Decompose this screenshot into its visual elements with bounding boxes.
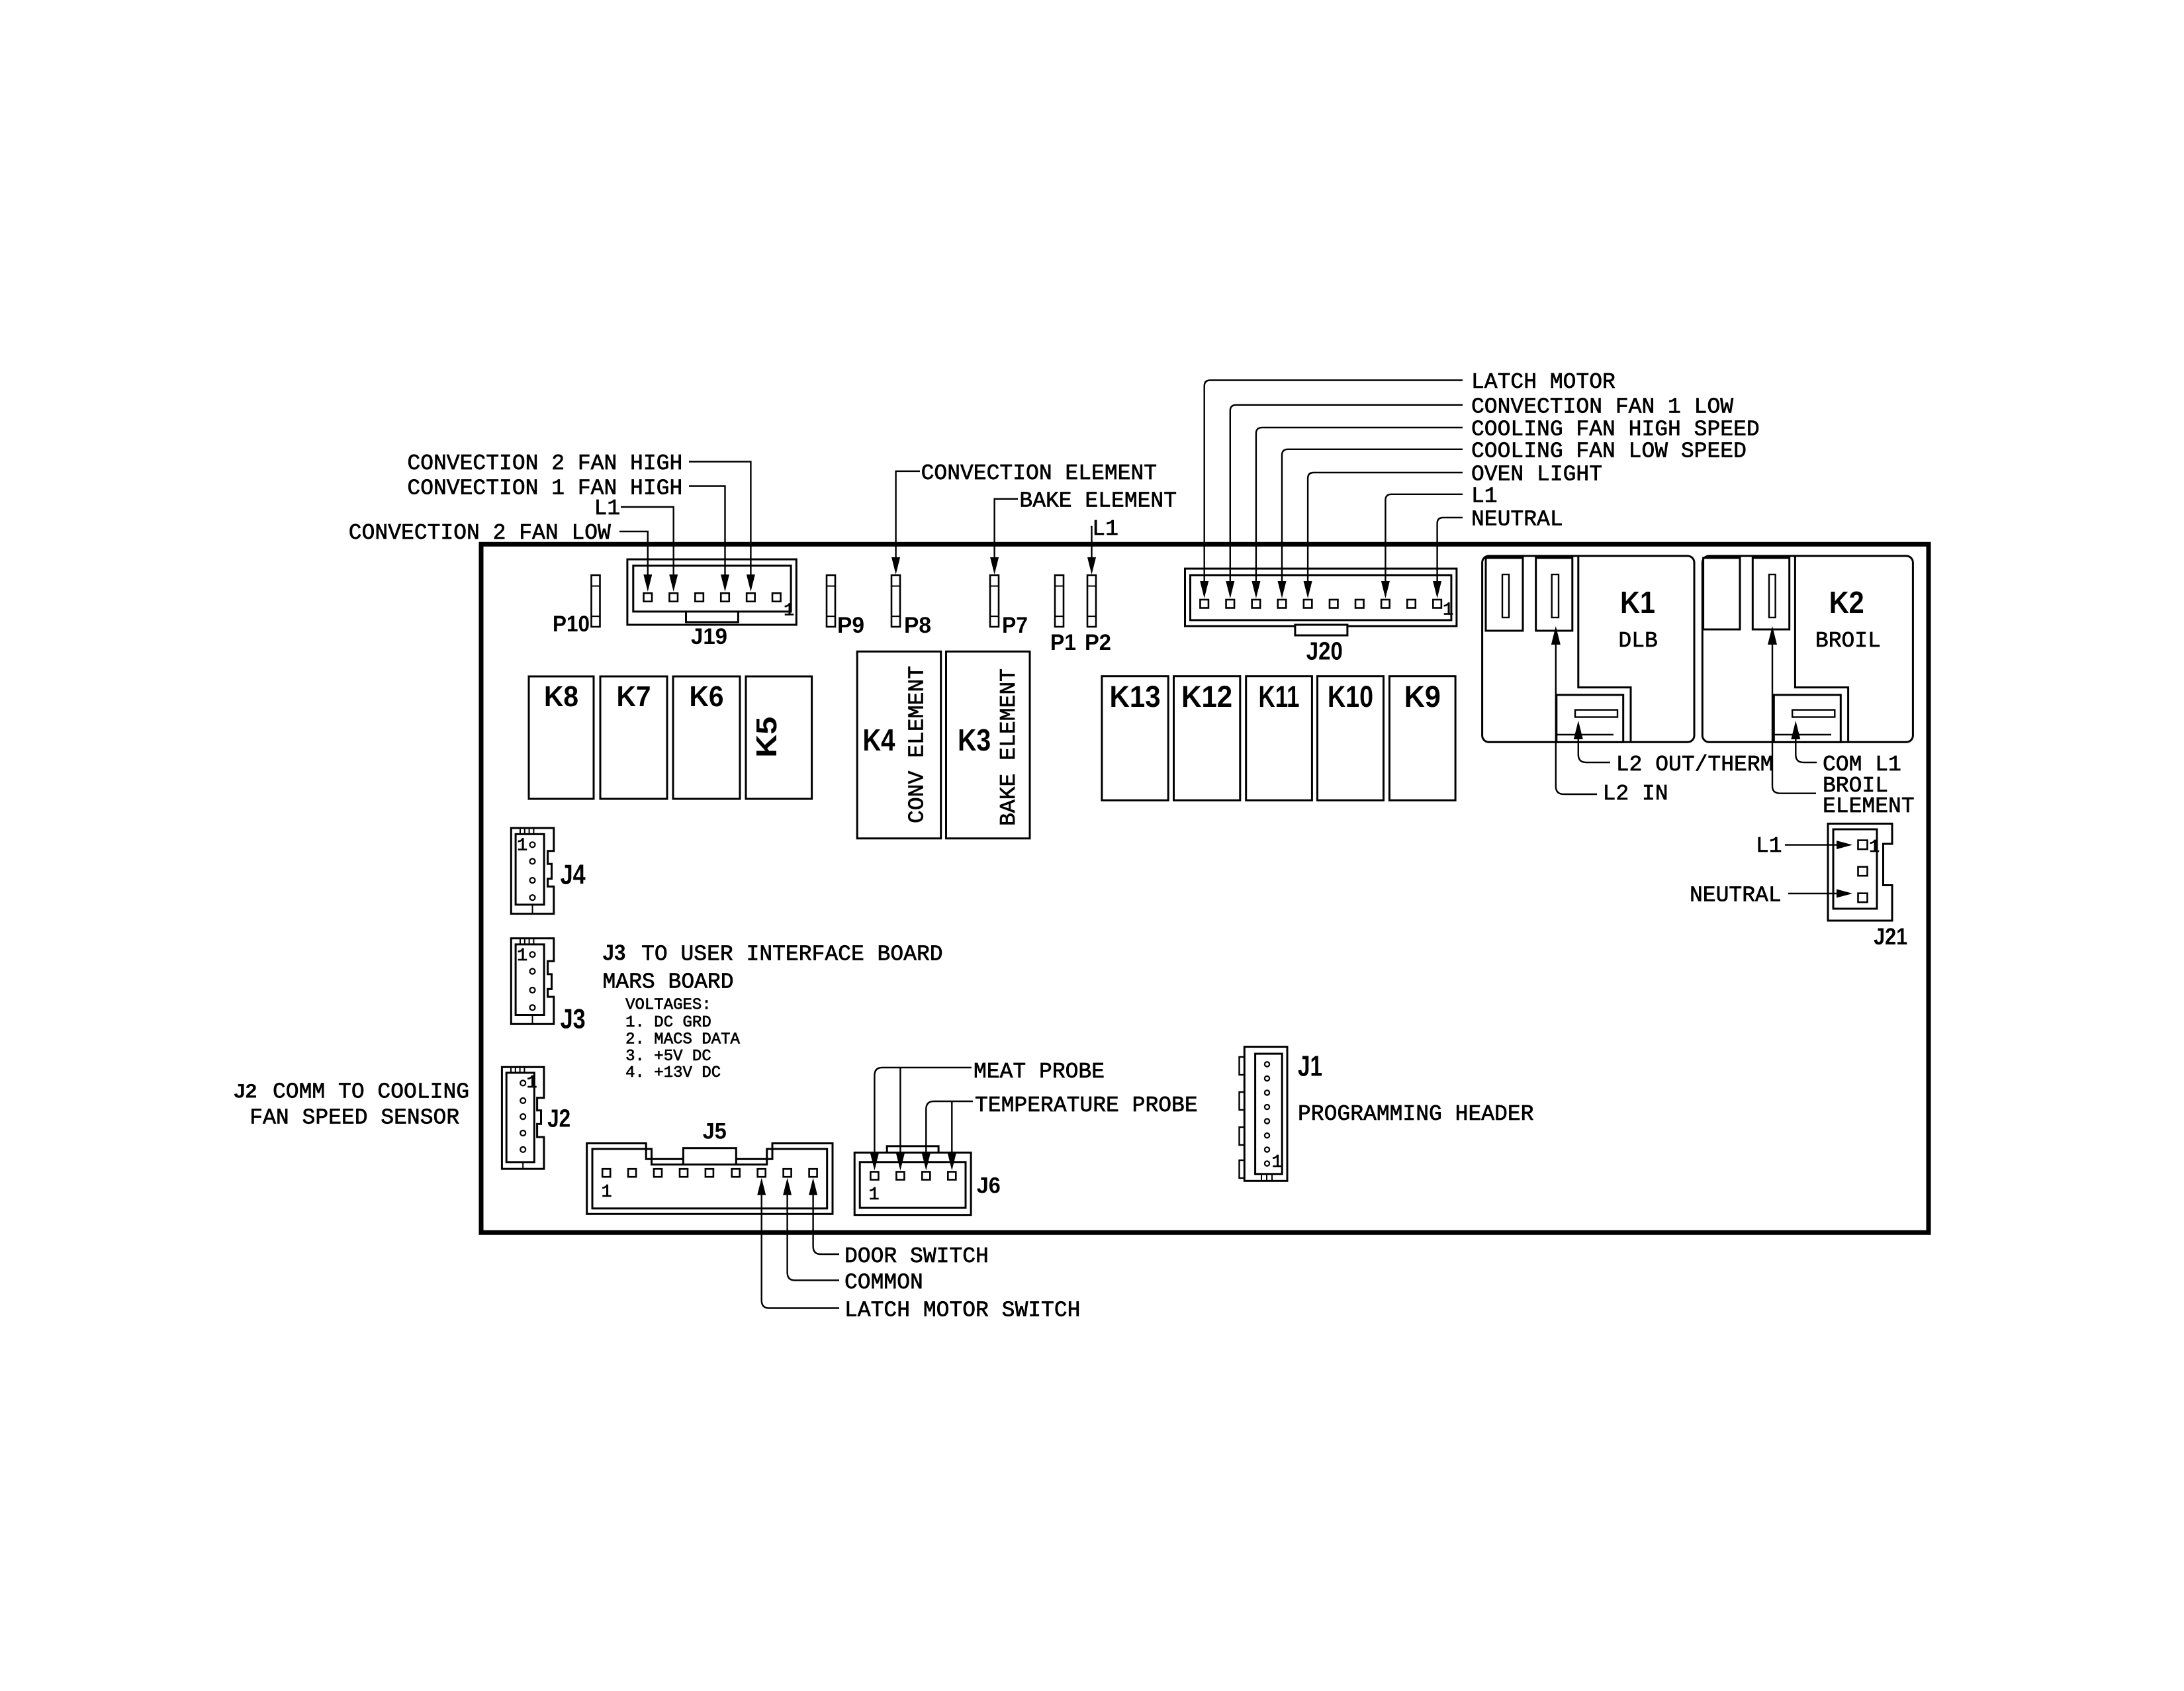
svg-text:J20: J20: [1306, 637, 1343, 665]
relay K11: [1246, 676, 1312, 800]
svg-text:BAKE ELEMENT: BAKE ELEMENT: [997, 668, 1021, 826]
label P10: [553, 612, 590, 637]
wire DOOR SWITCH from J5 pin 9: [813, 1195, 839, 1254]
K2 tab 2: [1752, 558, 1789, 629]
label CONVECTION FAN 1 LOW: [1471, 394, 1733, 419]
label J3: [561, 1003, 586, 1034]
relay K7: [600, 676, 667, 799]
wire L1 to J21 pin 1: [1785, 841, 1852, 849]
svg-text:J21: J21: [1874, 924, 1907, 950]
svg-text:K6: K6: [690, 680, 724, 713]
relay K6: [673, 676, 740, 799]
label CONVECTION 2 FAN LOW: [349, 521, 611, 545]
svg-text:DLB: DLB: [1618, 629, 1657, 653]
label K2: [1829, 585, 1864, 619]
wire COOLING FAN HIGH SPEED to J20 pin: [1256, 428, 1463, 581]
svg-text:NEUTRAL: NEUTRAL: [1471, 508, 1563, 532]
svg-text:CONVECTION 2 FAN HIGH: CONVECTION 2 FAN HIGH: [407, 451, 682, 476]
arrows into J19 pins: [643, 574, 755, 592]
connector J4: [511, 828, 554, 914]
svg-text:TEMPERATURE PROBE: TEMPERATURE PROBE: [975, 1093, 1198, 1118]
label J3 TO USER INTERFACE BOARD: [603, 940, 943, 967]
svg-text:K1: K1: [1620, 585, 1655, 619]
K1 contact box: [1557, 695, 1623, 742]
label PROGRAMMING HEADER: [1298, 1102, 1533, 1126]
label P7: [1002, 613, 1028, 638]
relay K10: [1318, 676, 1384, 800]
svg-text:DOOR SWITCH: DOOR SWITCH: [844, 1244, 989, 1269]
label CONVECTION ELEMENT: [921, 461, 1157, 486]
svg-text:K8: K8: [544, 680, 578, 713]
arrows into J5 pins: [757, 1178, 817, 1195]
svg-text:1: 1: [1272, 1153, 1283, 1173]
svg-text:P7: P7: [1002, 613, 1028, 638]
svg-text:VOLTAGES:: VOLTAGES:: [625, 997, 711, 1015]
label L1: [1471, 484, 1498, 508]
wire MEAT PROBE to J6 pins 1-2: [874, 1068, 972, 1154]
label J1: [1298, 1050, 1322, 1083]
relay K5: [746, 676, 812, 799]
wire LATCH MOTOR to J20 pin: [1205, 381, 1463, 582]
svg-text:CONVECTION 2 FAN LOW: CONVECTION 2 FAN LOW: [349, 521, 611, 545]
label BROIL: [1815, 629, 1881, 653]
relay K2 body: [1702, 556, 1913, 742]
pin P8: [891, 575, 900, 627]
svg-text:COMMON: COMMON: [844, 1271, 923, 1295]
label LATCH MOTOR: [1471, 370, 1615, 394]
svg-text:CONVECTION 1 FAN HIGH: CONVECTION 1 FAN HIGH: [407, 476, 682, 500]
wire convection 2 fan high to J19 pin 5: [689, 462, 751, 575]
label COOLING FAN LOW SPEED: [1471, 439, 1747, 463]
svg-text:K10: K10: [1328, 680, 1373, 713]
pin P7: [990, 575, 999, 627]
svg-text:COOLING FAN HIGH SPEED: COOLING FAN HIGH SPEED: [1471, 418, 1760, 442]
svg-text:L1: L1: [1471, 484, 1498, 508]
label L1 (P2): [1092, 517, 1118, 541]
label COMMON: [844, 1271, 923, 1295]
svg-text:P8: P8: [904, 613, 931, 638]
label J20: [1306, 637, 1343, 665]
label COOLING FAN HIGH SPEED: [1471, 418, 1760, 442]
label P1: [1050, 630, 1076, 655]
label L1 (J19): [594, 496, 621, 521]
label P2: [1085, 630, 1111, 655]
svg-text:J2: J2: [234, 1081, 257, 1103]
svg-text:J4: J4: [561, 859, 586, 890]
svg-text:TO USER INTERFACE BOARD: TO USER INTERFACE BOARD: [641, 942, 942, 967]
wire L2 OUT/THERM: [1574, 721, 1610, 762]
svg-text:PROGRAMMING HEADER: PROGRAMMING HEADER: [1298, 1102, 1533, 1126]
wire OVEN LIGHT to J20 pin: [1308, 473, 1463, 581]
label J2 COMM TO COOLING FAN SPEED SENSOR: [234, 1080, 469, 1130]
circuit board outline: [481, 544, 1929, 1232]
svg-text:OVEN LIGHT: OVEN LIGHT: [1471, 463, 1602, 487]
label J5: [703, 1119, 727, 1144]
arrows into J6 pins: [870, 1154, 956, 1171]
pin P10: [592, 575, 600, 627]
label DLB: [1618, 629, 1657, 653]
label MEAT PROBE: [974, 1060, 1105, 1084]
relay K9: [1389, 676, 1455, 800]
label P8: [904, 613, 931, 638]
svg-text:L2 OUT/THERM: L2 OUT/THERM: [1616, 753, 1774, 777]
K2 tab 1: [1704, 558, 1740, 629]
label BAKE ELEMENT: [1019, 489, 1177, 514]
label NEUTRAL (J21): [1690, 884, 1782, 908]
connector J3: [511, 938, 554, 1025]
svg-text:J3: J3: [603, 940, 626, 965]
connector J6: [854, 1146, 971, 1215]
wire convection 2 fan low to J19 pin 1: [619, 531, 648, 575]
svg-text:1: 1: [869, 1185, 880, 1205]
svg-text:COOLING FAN LOW SPEED: COOLING FAN LOW SPEED: [1471, 439, 1747, 463]
wire L1 to J20 pin: [1385, 494, 1463, 581]
svg-text:3. +5V DC: 3. +5V DC: [625, 1048, 711, 1066]
connector J19: [627, 559, 796, 625]
label NEUTRAL: [1471, 508, 1563, 532]
svg-text:1: 1: [517, 946, 527, 966]
wire L2 IN: [1551, 626, 1597, 794]
svg-text:J3: J3: [561, 1003, 586, 1034]
svg-text:4. +13V DC: 4. +13V DC: [625, 1064, 721, 1082]
wire convection element to P8: [891, 471, 920, 574]
label VOLTAGES list: [625, 997, 740, 1083]
svg-text:1: 1: [517, 837, 527, 856]
svg-text:ELEMENT: ELEMENT: [1823, 794, 1915, 819]
pin P1: [1055, 575, 1064, 627]
svg-text:L2 IN: L2 IN: [1603, 782, 1668, 806]
svg-text:K9: K9: [1404, 680, 1441, 713]
relay K12: [1174, 676, 1240, 800]
svg-text:CONVECTION ELEMENT: CONVECTION ELEMENT: [921, 461, 1157, 486]
label L2 IN: [1603, 782, 1668, 806]
label L1 (J21): [1756, 834, 1782, 858]
label J2: [547, 1105, 570, 1133]
wire CONVECTION FAN 1 LOW to J20 pin: [1230, 405, 1463, 581]
wire L1 to P2: [1087, 527, 1096, 574]
connector J1: [1240, 1047, 1288, 1181]
svg-text:L1: L1: [594, 496, 621, 521]
svg-text:K2: K2: [1829, 585, 1864, 619]
wire convection 1 fan high to J19 pin 4: [689, 486, 725, 575]
svg-text:MEAT PROBE: MEAT PROBE: [974, 1060, 1105, 1084]
relay K13: [1102, 676, 1168, 800]
svg-text:K11: K11: [1259, 680, 1300, 713]
svg-text:L1: L1: [1756, 834, 1782, 858]
svg-text:J19: J19: [691, 624, 727, 649]
arrows into J20 pins: [1200, 581, 1441, 598]
wire bake element to P7: [990, 499, 1018, 574]
svg-text:K5: K5: [751, 717, 783, 758]
svg-text:LATCH MOTOR: LATCH MOTOR: [1471, 370, 1615, 394]
label CONVECTION 2 FAN HIGH: [407, 451, 682, 476]
label J21: [1874, 924, 1907, 950]
label CONVECTION 1 FAN HIGH: [407, 476, 682, 500]
wire LATCH MOTOR SWITCH from J5 pin 7: [762, 1195, 839, 1308]
svg-text:1: 1: [602, 1183, 612, 1203]
svg-text:P2: P2: [1085, 630, 1111, 655]
label J4: [561, 859, 586, 890]
svg-text:2. MACS DATA: 2. MACS DATA: [625, 1031, 740, 1049]
label J19: [691, 624, 727, 649]
label OVEN LIGHT: [1471, 463, 1602, 487]
wire BROIL ELEMENT: [1768, 626, 1816, 794]
label COM L1: [1823, 753, 1901, 777]
relay K4: [857, 651, 941, 838]
pin P9: [827, 575, 835, 627]
svg-text:LATCH MOTOR SWITCH: LATCH MOTOR SWITCH: [844, 1299, 1080, 1323]
svg-text:P10: P10: [553, 612, 590, 637]
svg-text:1. DC GRD: 1. DC GRD: [625, 1014, 711, 1032]
svg-text:J6: J6: [977, 1173, 1001, 1199]
wire COOLING FAN LOW SPEED to J20 pin: [1282, 449, 1463, 581]
svg-text:NEUTRAL: NEUTRAL: [1690, 884, 1782, 908]
svg-text:1: 1: [1869, 838, 1880, 858]
svg-text:1: 1: [1443, 601, 1453, 621]
label K1: [1620, 585, 1655, 619]
svg-text:COMM TO COOLING: COMM TO COOLING: [273, 1080, 469, 1105]
svg-text:J1: J1: [1298, 1050, 1322, 1083]
label P9: [837, 613, 864, 638]
wire NEUTRAL to J20 pin: [1437, 518, 1463, 581]
svg-text:K13: K13: [1110, 680, 1161, 713]
connector J21: [1828, 824, 1892, 921]
svg-text:J2: J2: [547, 1105, 570, 1133]
wire COM L1: [1791, 721, 1817, 762]
K1 tab 1: [1486, 558, 1523, 631]
svg-text:MARS BOARD: MARS BOARD: [603, 970, 734, 995]
svg-text:L1: L1: [1092, 517, 1118, 541]
wire COMMON from J5 pin 8: [788, 1195, 839, 1281]
svg-text:CONV ELEMENT: CONV ELEMENT: [905, 666, 930, 823]
svg-text:J5: J5: [703, 1119, 727, 1144]
pin P2: [1087, 575, 1096, 627]
label BROIL ELEMENT: [1823, 774, 1915, 819]
svg-text:FAN SPEED SENSOR: FAN SPEED SENSOR: [250, 1106, 459, 1130]
label DOOR SWITCH: [844, 1244, 989, 1269]
label J6: [977, 1173, 1001, 1199]
svg-text:P9: P9: [837, 613, 864, 638]
relay K8: [529, 676, 594, 799]
svg-text:BROIL: BROIL: [1815, 629, 1881, 653]
K1 tab 2: [1536, 558, 1572, 631]
svg-text:K12: K12: [1181, 680, 1232, 713]
label L2 OUT/THERM: [1616, 753, 1774, 777]
svg-text:1: 1: [784, 602, 794, 621]
connector J2: [502, 1067, 544, 1169]
svg-text:P1: P1: [1050, 630, 1076, 655]
connector J20: [1185, 569, 1457, 635]
svg-text:1: 1: [527, 1074, 537, 1093]
svg-text:K3: K3: [958, 723, 991, 757]
svg-text:K7: K7: [617, 680, 651, 713]
wire NEUTRAL to J21 pin 3: [1788, 890, 1852, 898]
label LATCH MOTOR SWITCH: [844, 1299, 1080, 1323]
connector J5: [587, 1144, 833, 1214]
relay K3: [946, 651, 1030, 838]
svg-text:K4: K4: [863, 723, 895, 757]
wire L1 to J19 pin 2: [621, 507, 674, 575]
label MARS BOARD: [603, 970, 734, 995]
svg-text:CONVECTION FAN 1 LOW: CONVECTION FAN 1 LOW: [1471, 394, 1733, 419]
svg-text:BAKE ELEMENT: BAKE ELEMENT: [1019, 489, 1177, 514]
relay K1 body: [1482, 556, 1694, 742]
K2 contact box: [1774, 695, 1841, 742]
wire TEMPERATURE PROBE to J6 pins 3-4: [926, 1101, 973, 1154]
label TEMPERATURE PROBE: [975, 1093, 1198, 1118]
